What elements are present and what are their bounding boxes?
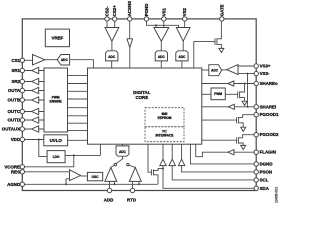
- ground PGOOD1 fet: [241, 127, 246, 131]
- pin PGND: [144, 17, 148, 21]
- wire VS1 down: [163, 21, 165, 28]
- pin ACSNS: [128, 17, 132, 21]
- wire PSON: [182, 144, 255, 172]
- wire CS1 to amp: [24, 59, 32, 61]
- pin SCL: [254, 178, 258, 182]
- ADC VS2: [176, 51, 188, 61]
- wire SHAREi line: [234, 106, 254, 108]
- switch wiper from mux ADC: [122, 156, 124, 159]
- wire RTD pin to amp: [132, 181, 134, 188]
- PGOOD2 fet: [237, 135, 255, 146]
- op-amp VS1: [154, 28, 169, 42]
- svg-text:OSC: OSC: [92, 175, 100, 179]
- I2C interface dashed box: [145, 127, 184, 142]
- switch blade: [116, 158, 123, 164]
- wire RES to osc amp: [24, 172, 69, 185]
- junction AGND-ADD amp: [114, 183, 116, 185]
- svg-text:VDD: VDD: [11, 137, 20, 142]
- wire LDO out to core: [65, 144, 100, 155]
- svg-text:VREF: VREF: [52, 36, 64, 41]
- wire VS3+: [238, 65, 254, 67]
- svg-text:VS3+: VS3+: [260, 64, 271, 69]
- buffer SHAREo: [228, 81, 234, 86]
- pin VCORE: [20, 165, 24, 169]
- svg-text:ADC: ADC: [158, 55, 166, 59]
- buffer OUTB: [32, 97, 39, 103]
- switch contact A: [114, 163, 116, 165]
- pin OUTAUX: [20, 127, 24, 131]
- ADC VS1: [155, 51, 167, 61]
- OSC box: [87, 172, 102, 180]
- svg-text:PGND: PGND: [144, 4, 149, 17]
- pin VS3-: [254, 71, 258, 75]
- svg-text:ADC: ADC: [119, 150, 127, 154]
- VREF box: [45, 29, 69, 47]
- GATE fet: [215, 21, 221, 48]
- wire SHAREo buf to core: [202, 83, 228, 85]
- wire VS3- branch down to SHAREi: [247, 74, 249, 107]
- op-amp RES oscillator: [70, 170, 81, 181]
- wire SDA: [163, 144, 254, 188]
- svg-text:FLAGIN: FLAGIN: [260, 150, 276, 155]
- pin SR1: [20, 68, 24, 72]
- wire ADD amp apex to switch contact: [111, 165, 114, 167]
- ADC mux: [116, 146, 129, 156]
- svg-text:RES: RES: [11, 169, 20, 174]
- svg-text:RTD: RTD: [127, 198, 136, 203]
- op-amp CS2: [105, 28, 119, 42]
- wire mux ADC to core: [122, 144, 124, 146]
- svg-text:SHAREi: SHAREi: [260, 104, 277, 109]
- pin OUTA: [20, 88, 24, 92]
- PGOOD1 fet: [237, 115, 255, 128]
- svg-text:INTERFACE: INTERFACE: [155, 134, 173, 138]
- svg-text:ADC: ADC: [108, 55, 116, 59]
- buffer FLAGIN: [228, 150, 234, 155]
- buffer OUTAUX: [32, 126, 39, 132]
- EEPROM dashed box: [145, 108, 184, 127]
- wire OUTA: [24, 90, 44, 92]
- wire VS2 down: [184, 21, 186, 28]
- svg-text:PGOOD1: PGOOD1: [260, 112, 279, 117]
- ground PGOOD2 fet: [241, 145, 246, 149]
- ADC CS2: [106, 51, 118, 61]
- pin CS1: [20, 58, 24, 62]
- wire ADD pin to amp: [109, 181, 111, 188]
- pin RES: [20, 170, 24, 174]
- svg-text:PWM: PWM: [214, 92, 222, 96]
- pin VDD: [20, 137, 24, 141]
- svg-text:ADD: ADD: [104, 198, 114, 203]
- pin PSON: [254, 170, 258, 174]
- pin VS2: [183, 17, 187, 21]
- wire OUTB: [24, 99, 44, 101]
- junction LDO out: [73, 154, 75, 156]
- op-amp ADD: [105, 167, 117, 181]
- buffer OUTC: [32, 108, 39, 114]
- junction SHAREi-VS3: [247, 106, 249, 108]
- digital core box: [88, 68, 202, 144]
- pin RTD: [130, 188, 134, 192]
- wire RTD amp apex to switch contact: [129, 165, 135, 167]
- wire OUTC: [24, 111, 44, 113]
- op-amp RTD: [129, 167, 141, 181]
- buffer SR1: [32, 67, 39, 73]
- svg-text:ADC: ADC: [178, 55, 186, 59]
- wire core to PWM box: [202, 93, 211, 95]
- pin SR2: [20, 79, 24, 83]
- svg-text:OUTD: OUTD: [8, 118, 20, 123]
- svg-text:ENGINE: ENGINE: [50, 100, 62, 104]
- UVLO box: [44, 135, 68, 146]
- pin CS2-: [105, 17, 109, 21]
- op-amp VS2: [176, 28, 190, 42]
- pin FLAGIN: [254, 150, 258, 154]
- wire FLAGIN line: [234, 151, 254, 153]
- chip boundary: [22, 19, 256, 191]
- PWM engine to core bus lines: [68, 75, 88, 130]
- buffer SR2: [32, 78, 39, 84]
- ground share fet: [242, 101, 247, 105]
- svg-text:AGND: AGND: [7, 182, 20, 187]
- svg-text:OUTC: OUTC: [8, 109, 21, 114]
- pin VS1: [162, 17, 166, 21]
- svg-text:OUTA: OUTA: [8, 88, 21, 93]
- svg-text:PGOOD2: PGOOD2: [260, 132, 279, 137]
- buffer ACSNS: [127, 39, 133, 48]
- wire VS2 amp to ADC: [182, 41, 184, 51]
- SDA fet: [152, 169, 164, 185]
- svg-text:ADC: ADC: [211, 68, 219, 72]
- wire VS3 amp to right ADC: [222, 69, 227, 71]
- svg-text:SDA: SDA: [260, 186, 270, 191]
- pin DGND: [254, 162, 258, 166]
- junction VS3-: [247, 73, 249, 75]
- wire CS2- down: [106, 21, 108, 28]
- wire SR2: [24, 81, 44, 83]
- pin SHAREo: [254, 81, 258, 85]
- wire VS2 ADC to core: [181, 61, 183, 68]
- svg-text:SCL: SCL: [260, 177, 269, 182]
- svg-text:SHAREo: SHAREo: [260, 81, 278, 86]
- wire CS2 ADC to core: [111, 61, 113, 68]
- op-amp CS1: [33, 55, 45, 65]
- buffer SDA: [178, 159, 184, 165]
- wire PGND down and across: [147, 21, 179, 28]
- switch contact B: [127, 163, 129, 165]
- wire VCORE: [24, 155, 73, 166]
- wire SR1: [24, 70, 44, 72]
- wire OUTAUX: [24, 128, 44, 130]
- pin GATE: [220, 17, 224, 21]
- wire CS2+ down: [114, 21, 116, 28]
- PWM box right: [211, 88, 225, 100]
- wire core to SDA fet gate: [148, 144, 152, 172]
- wire VDD to UVLO: [24, 139, 43, 141]
- buffer SCL: [169, 159, 175, 165]
- junction AGND-RES amp: [65, 183, 67, 185]
- svg-text:ADC: ADC: [61, 58, 69, 62]
- svg-text:CORE: CORE: [135, 95, 148, 100]
- ADC CS1: [57, 55, 69, 66]
- pin OUTD: [20, 118, 24, 122]
- junction SDA drain: [162, 168, 164, 170]
- svg-text:VS1: VS1: [161, 7, 166, 16]
- svg-text:PSON: PSON: [260, 169, 272, 174]
- buffer SHAREi: [228, 104, 234, 109]
- svg-text:ACSNS: ACSNS: [127, 1, 132, 16]
- pin SHAREi: [254, 105, 258, 109]
- junction PGND branch: [155, 24, 157, 26]
- LDO box: [47, 151, 65, 163]
- pin VS3+: [254, 64, 258, 68]
- wire core to GATE fet gate: [194, 42, 215, 68]
- pin CS2+: [113, 17, 117, 21]
- wire DGND: [190, 144, 254, 164]
- pin ADD: [107, 188, 111, 192]
- op-amp VS3: [227, 65, 238, 75]
- svg-text:10405-001: 10405-001: [275, 187, 279, 203]
- pin OUTB: [20, 98, 24, 102]
- svg-text:EEPROM: EEPROM: [158, 116, 172, 120]
- svg-text:SR1: SR1: [11, 68, 20, 73]
- ADC VS3: [209, 65, 222, 76]
- wire RTD amp ref input: [138, 181, 140, 184]
- pin OUTC: [20, 109, 24, 113]
- wire ADD amp ref input: [114, 181, 116, 184]
- buffer PSON: [160, 159, 166, 165]
- svg-text:SR2: SR2: [11, 79, 20, 84]
- wire CS1 ADC to core: [70, 60, 94, 68]
- wire core to PGOOD2 gate: [202, 139, 237, 141]
- svg-text:OUTAUX: OUTAUX: [2, 127, 20, 132]
- wire SHAREi buf to core: [202, 106, 229, 108]
- junction VDD: [38, 139, 40, 141]
- svg-text:CS1: CS1: [11, 58, 20, 63]
- wire SHAREo line: [234, 83, 254, 85]
- wire SCL: [172, 144, 254, 180]
- wire AGND rail: [24, 183, 157, 185]
- PWM engine box: [44, 68, 68, 132]
- wire ACSNS buf to core: [129, 48, 131, 69]
- wire VS3-: [238, 73, 254, 75]
- buffer OUTD: [32, 117, 39, 123]
- junction AGND-RTD amp: [138, 183, 140, 185]
- svg-text:UVLO: UVLO: [50, 138, 63, 143]
- wire UVLO to core: [68, 139, 88, 141]
- wire core to PGOOD1 gate: [202, 119, 237, 121]
- wire osc amp to OSC: [81, 175, 88, 177]
- svg-text:VS2: VS2: [182, 7, 187, 16]
- svg-text:DGND: DGND: [260, 161, 273, 166]
- wire right ADC to core: [202, 69, 209, 71]
- wire VDD branch to LDO: [39, 140, 47, 157]
- svg-text:CS2+: CS2+: [112, 5, 117, 17]
- svg-text:VS3-: VS3-: [260, 71, 270, 76]
- wire VS1 ADC to core: [160, 61, 162, 68]
- pin PGOOD2: [254, 133, 258, 137]
- wire FLAGIN buf to core: [196, 144, 228, 157]
- svg-text:OUTB: OUTB: [8, 98, 20, 103]
- pin PGOOD1: [254, 113, 258, 117]
- wire CS2 amp to ADC: [111, 41, 113, 51]
- share fet: [238, 84, 245, 102]
- junction SHAREo drain: [244, 83, 246, 85]
- pin AGND: [20, 182, 24, 186]
- svg-text:CS2-: CS2-: [105, 6, 110, 17]
- buffer OUTA: [32, 87, 39, 93]
- svg-text:GATE: GATE: [219, 4, 224, 16]
- wire PWM to share fet gate: [225, 93, 237, 95]
- wire CS1 amp to ADC: [45, 59, 57, 61]
- ground GATE fet: [219, 48, 224, 52]
- wire OUTD: [24, 119, 44, 121]
- svg-text:LDO: LDO: [53, 155, 60, 159]
- pin SDA: [254, 186, 258, 190]
- wire VS1 amp to ADC: [160, 41, 162, 51]
- wire ACSNS down: [129, 21, 131, 39]
